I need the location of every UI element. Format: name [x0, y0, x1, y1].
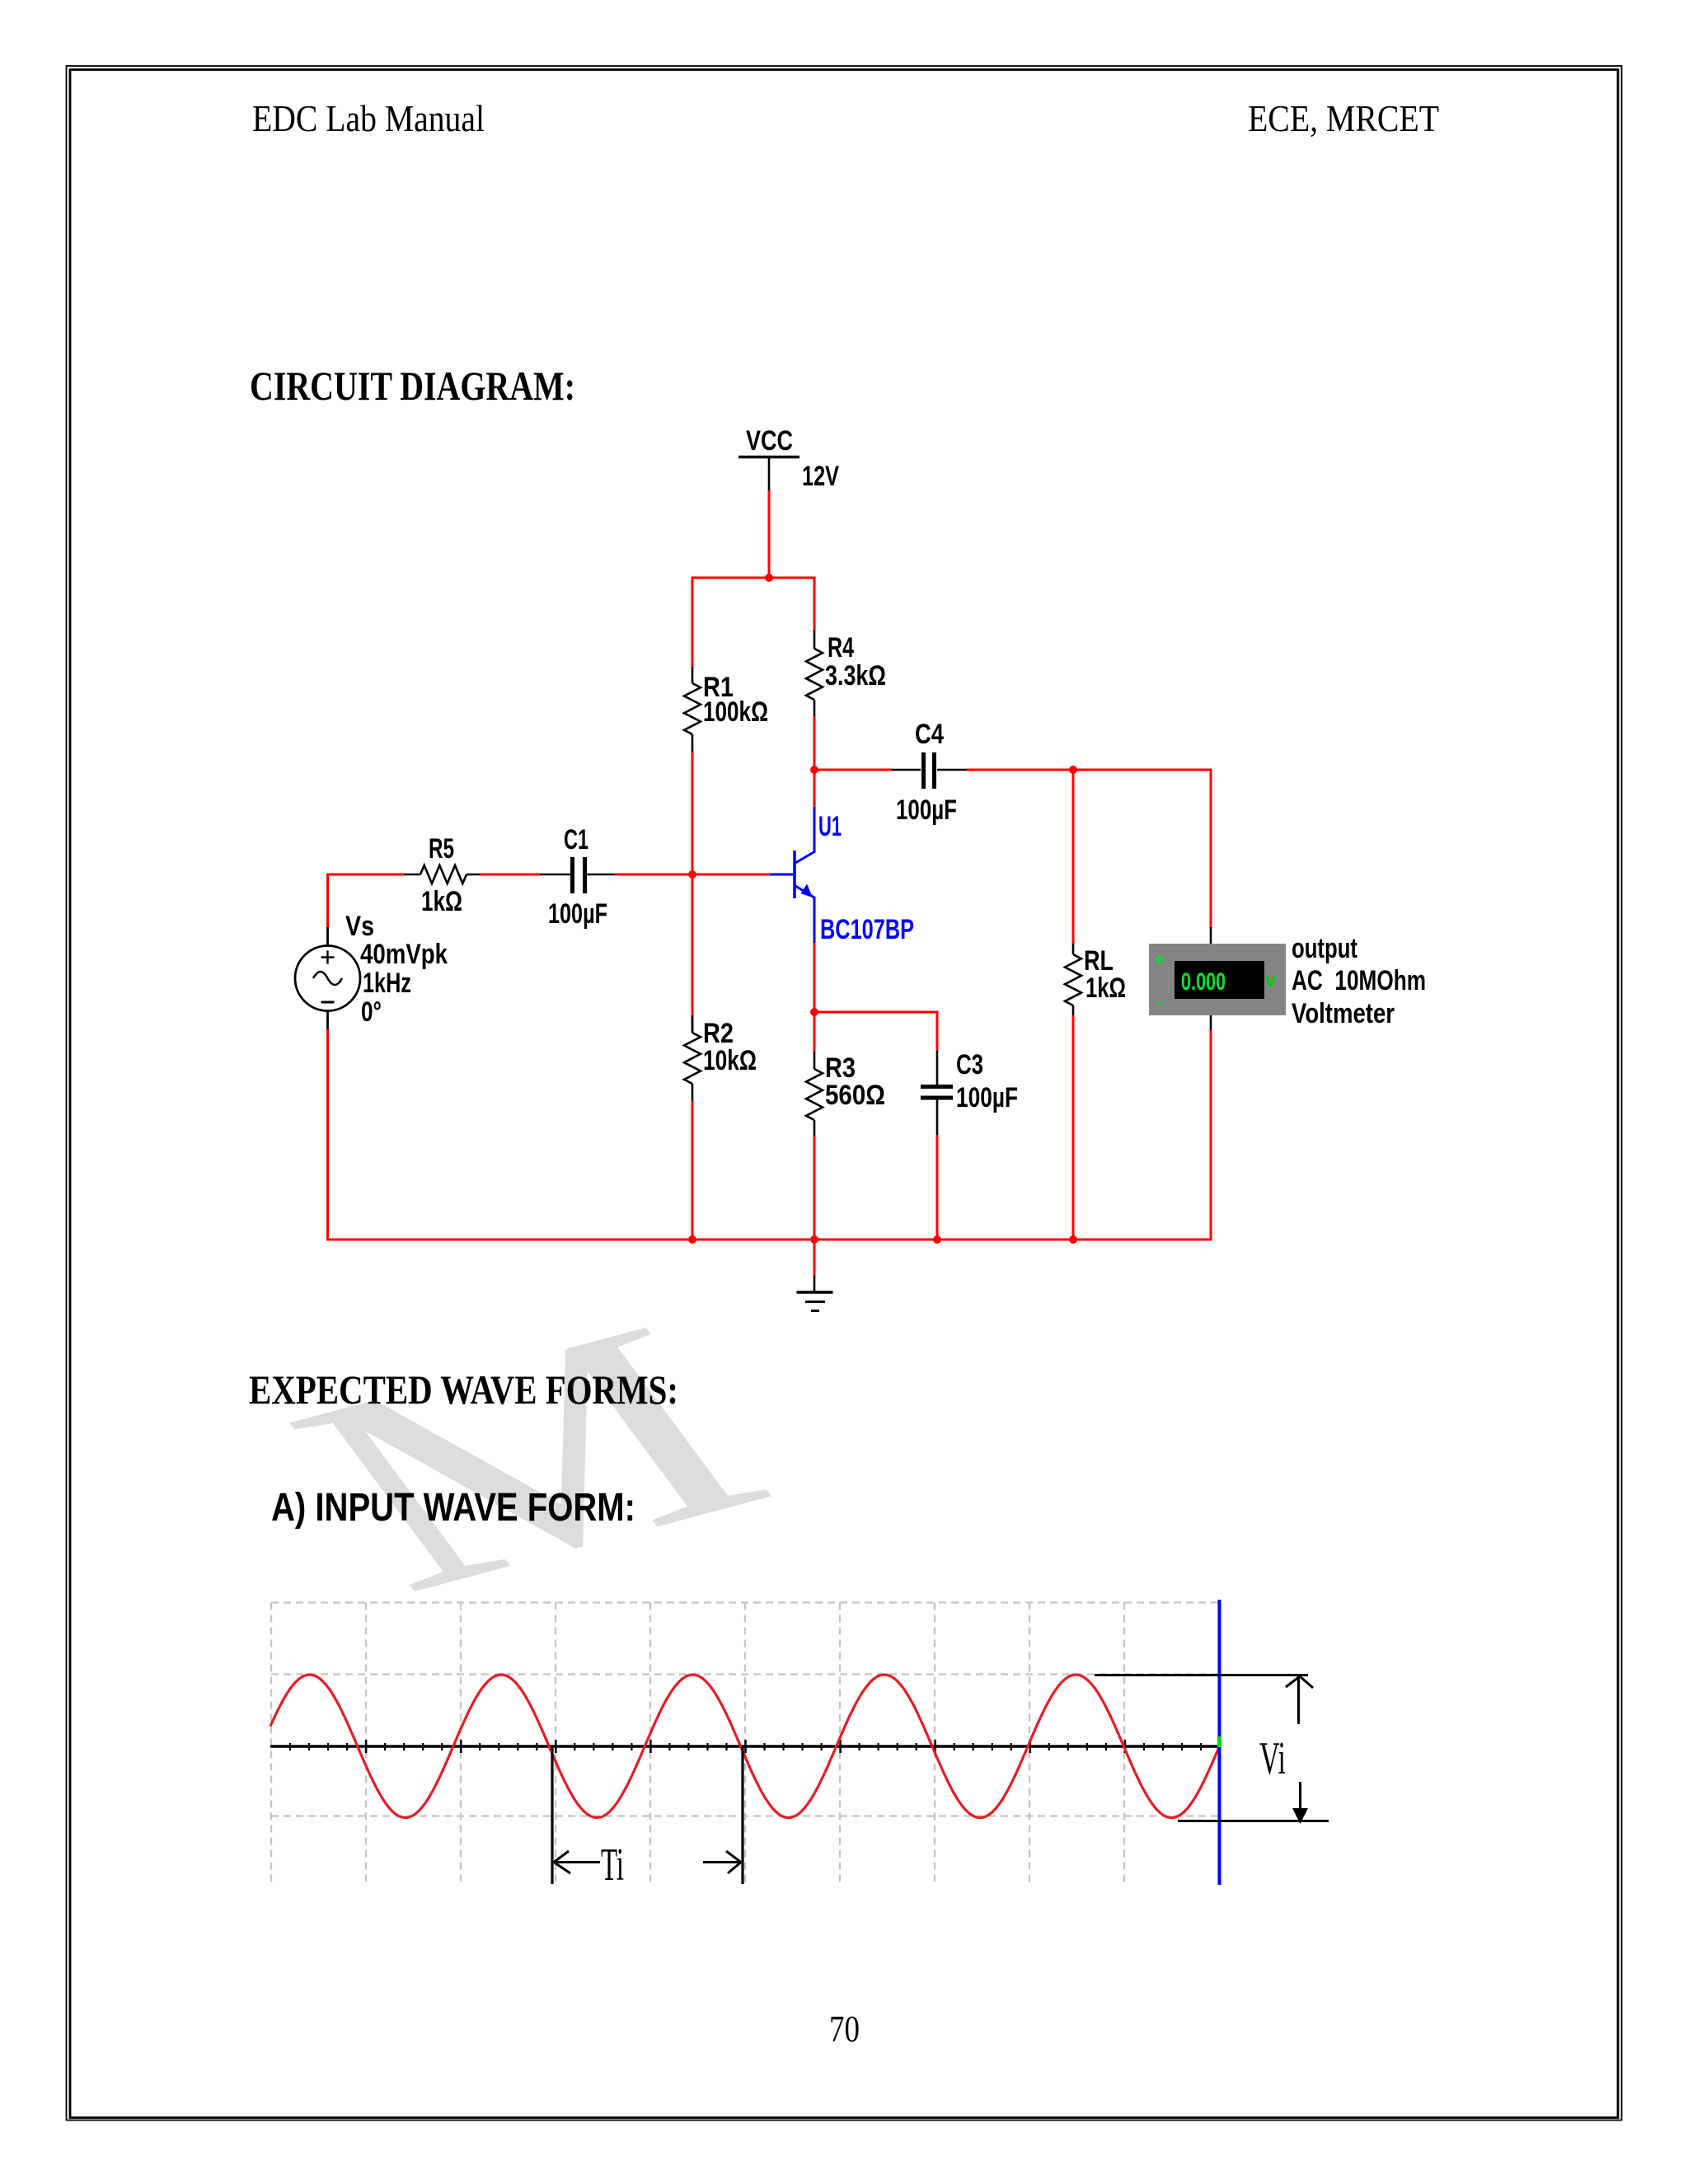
source Vs circle — [295, 926, 360, 1030]
wire Vs top — [326, 874, 329, 928]
Vi trough level line — [1178, 1820, 1329, 1822]
svg-text:+: + — [1154, 949, 1165, 970]
node bottom RL — [1069, 1235, 1077, 1244]
wire RL bottom — [1072, 1015, 1075, 1241]
svg-text:3.3kΩ: 3.3kΩ — [825, 660, 886, 691]
wire R4 top — [814, 577, 816, 631]
svg-text:Vi: Vi — [1259, 1733, 1286, 1784]
wire RL top — [1072, 769, 1075, 945]
voltmeter top lead — [1210, 927, 1212, 944]
node emitter junction — [810, 1008, 818, 1016]
Ti left arrow — [554, 1851, 600, 1873]
svg-text:EXPECTED WAVE FORMS:: EXPECTED WAVE FORMS: — [249, 1366, 678, 1413]
svg-text:CIRCUIT DIAGRAM:: CIRCUIT DIAGRAM: — [250, 363, 575, 409]
svg-text:1kHz: 1kHz — [363, 968, 411, 999]
wire R1 top — [692, 577, 694, 668]
svg-text:100µF: 100µF — [548, 898, 607, 930]
sine wave — [270, 1675, 1220, 1818]
svg-text:R5: R5 — [429, 833, 454, 865]
wire input left — [326, 874, 405, 876]
svg-text:output: output — [1292, 933, 1357, 964]
svg-text:1kΩ: 1kΩ — [421, 886, 462, 917]
capacitor C3 — [921, 1051, 953, 1136]
wire R4 bottom — [814, 716, 816, 771]
Vi up arrow — [1286, 1676, 1313, 1724]
wire emitter down — [814, 943, 816, 1052]
svg-text:100µF: 100µF — [896, 794, 957, 826]
Vi down arrow — [1299, 1782, 1301, 1819]
wire collector rail to C4 — [814, 769, 893, 771]
svg-text:1kΩ: 1kΩ — [1085, 972, 1126, 1004]
wire R2 bottom — [692, 1101, 694, 1241]
node VCC rail junction — [765, 574, 773, 582]
green cursor marker — [1217, 1736, 1221, 1747]
axis — [270, 1745, 1221, 1748]
resistor R1 — [684, 667, 701, 752]
svg-text:VCC: VCC — [746, 425, 793, 457]
svg-text:A) INPUT WAVE FORM:: A) INPUT WAVE FORM: — [271, 1486, 635, 1530]
Ti right arrow — [703, 1851, 741, 1873]
axis ticks — [290, 1740, 1201, 1753]
svg-text:70: 70 — [829, 2008, 860, 2050]
svg-text:100kΩ: 100kΩ — [703, 696, 768, 728]
node bottom ground — [810, 1235, 818, 1244]
voltmeter body — [1149, 944, 1286, 1015]
svg-text:560Ω: 560Ω — [825, 1080, 885, 1111]
svg-text:AC 10MOhm: AC 10MOhm — [1292, 965, 1426, 996]
node output junction — [1069, 766, 1077, 774]
capacitor C4 — [892, 752, 968, 789]
wire right branch bottom — [1210, 1030, 1212, 1241]
wire R1 bottom — [692, 752, 694, 876]
svg-text:U1: U1 — [818, 811, 842, 842]
svg-text:v: v — [1265, 969, 1276, 991]
svg-text:Vs: Vs — [345, 911, 374, 942]
Ti marker line left — [551, 1746, 553, 1884]
resistor R2 — [684, 1015, 701, 1101]
wire emitter rail to C3 — [814, 1011, 939, 1014]
svg-text:-: - — [1156, 991, 1163, 1012]
svg-text:100µF: 100µF — [956, 1082, 1018, 1113]
wire C3 top — [936, 1011, 939, 1052]
node base junction — [688, 870, 696, 879]
wire C1 to base — [615, 874, 770, 876]
wire right branch top — [1210, 769, 1212, 929]
ground — [797, 1276, 833, 1311]
svg-text:BC107BP: BC107BP — [820, 914, 914, 945]
VCC power symbol — [738, 425, 799, 491]
svg-text:C4: C4 — [915, 719, 944, 750]
svg-text:0.000: 0.000 — [1181, 968, 1226, 996]
node collector junction — [810, 766, 818, 774]
voltmeter bottom lead — [1210, 1015, 1212, 1031]
wire VCC drop — [768, 490, 771, 579]
capacitor C1 — [540, 857, 616, 893]
svg-text:Ti: Ti — [601, 1840, 624, 1891]
node bottom C3 — [933, 1235, 941, 1244]
svg-text:12V: 12V — [802, 461, 839, 492]
ground stub red — [814, 1240, 816, 1277]
wire R2 top — [692, 874, 694, 1033]
svg-text:ECE, MRCET: ECE, MRCET — [1248, 97, 1439, 139]
svg-text:0°: 0° — [361, 996, 382, 1028]
resistor RL — [1065, 944, 1081, 1016]
svg-text:Voltmeter: Voltmeter — [1292, 998, 1395, 1029]
wire R5 to C1 — [480, 874, 541, 876]
wire Vs bottom — [326, 1029, 329, 1241]
wire top rail — [692, 577, 816, 579]
wire R3 bottom — [814, 1136, 816, 1241]
transistor emitter arrow — [801, 884, 814, 898]
node bottom R2 — [688, 1235, 696, 1244]
transistor U1 — [770, 807, 815, 944]
resistor R3 — [806, 1052, 823, 1137]
blue cursor line — [1218, 1600, 1221, 1885]
svg-text:C3: C3 — [956, 1049, 983, 1080]
resistor R5 — [404, 865, 481, 883]
svg-text:C1: C1 — [564, 824, 588, 855]
resistor R4 — [806, 630, 823, 716]
wire C4 to output node — [967, 769, 1212, 771]
svg-text:R4: R4 — [828, 632, 854, 663]
svg-text:40mVpk: 40mVpk — [360, 939, 448, 970]
wire collector stub — [814, 770, 816, 808]
Ti marker line right — [741, 1746, 743, 1884]
svg-text:EDC Lab Manual: EDC Lab Manual — [252, 97, 485, 139]
wire C3 bottom — [936, 1135, 939, 1241]
svg-text:10kΩ: 10kΩ — [703, 1045, 757, 1076]
grid — [271, 1603, 1220, 1886]
wire bottom rail — [326, 1239, 1212, 1241]
Vi peak level line — [1095, 1674, 1308, 1676]
